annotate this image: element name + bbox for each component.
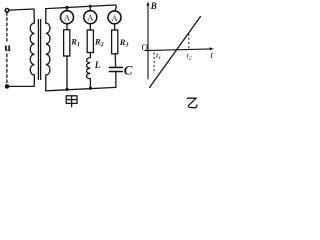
ammeter A2 bbox=[84, 11, 97, 24]
label jia (甲) bbox=[66, 96, 77, 107]
wire R3 to capacitor bbox=[114, 54, 116, 67]
dashed drop at t1 bbox=[153, 53, 155, 74]
capacitor C top plate bbox=[109, 66, 122, 68]
wire top-left from terminal to primary bbox=[9, 9, 34, 10]
resistor R1 bbox=[64, 30, 70, 56]
wire secondary bottom lead bbox=[45, 75, 47, 91]
wire A3 to R3 bbox=[114, 24, 116, 30]
wire R1 to bottom bus bbox=[66, 56, 68, 90]
wire primary bottom lead bbox=[33, 75, 35, 86]
capacitor C bottom plate bbox=[109, 71, 122, 73]
t axis arrowhead bbox=[210, 47, 214, 50]
source dashed line u bbox=[6, 13, 8, 41]
wire capacitor to bottom bus bbox=[115, 72, 117, 87]
svg-text:C: C bbox=[124, 62, 133, 77]
wire A1 to R1 bbox=[66, 24, 68, 30]
node bottom branch2 bbox=[89, 87, 92, 90]
wire R2 to inductor bbox=[89, 53, 91, 58]
transformer primary coil bbox=[30, 23, 34, 75]
svg-text:A: A bbox=[87, 13, 94, 23]
source bottom terminal bbox=[5, 85, 9, 89]
wire ammeter2 top lead bbox=[89, 6, 91, 11]
label u bbox=[4, 43, 11, 53]
node bottom branch1 bbox=[65, 88, 68, 91]
transformer secondary coil bbox=[46, 23, 50, 75]
svg-text:L: L bbox=[94, 60, 101, 70]
svg-text:O: O bbox=[142, 43, 149, 53]
wire secondary top lead bbox=[45, 9, 47, 23]
svg-text:B: B bbox=[150, 1, 157, 11]
dashed drop at t2 bbox=[188, 34, 190, 50]
ammeter A1 bbox=[61, 11, 74, 24]
wire bottom bus bbox=[46, 87, 116, 90]
graph line B(t) bbox=[150, 17, 201, 88]
wire top bus bbox=[46, 5, 117, 11]
transformer core bbox=[38, 20, 40, 80]
svg-text:A: A bbox=[64, 13, 71, 23]
node top branch1 bbox=[65, 6, 68, 9]
wire inductor to bottom bus bbox=[89, 79, 91, 89]
node top branch2 bbox=[89, 5, 92, 8]
B axis arrowhead bbox=[147, 1, 150, 5]
svg-text:A: A bbox=[111, 13, 118, 23]
resistor R2 bbox=[87, 30, 93, 53]
source top terminal bbox=[5, 9, 9, 13]
graph B axis bbox=[145, 4, 212, 79]
resistor R3 bbox=[112, 30, 118, 54]
wire primary top lead bbox=[33, 9, 35, 23]
wire ammeter1 top lead bbox=[66, 8, 68, 11]
label yi (乙) bbox=[187, 98, 197, 108]
inductor L bbox=[87, 58, 91, 79]
svg-text:u: u bbox=[4, 40, 11, 54]
graph t axis bbox=[145, 49, 212, 51]
wire A2 to R2 bbox=[89, 24, 91, 30]
ammeter A3 bbox=[108, 11, 121, 24]
wire bottom-left to primary bbox=[8, 85, 34, 87]
